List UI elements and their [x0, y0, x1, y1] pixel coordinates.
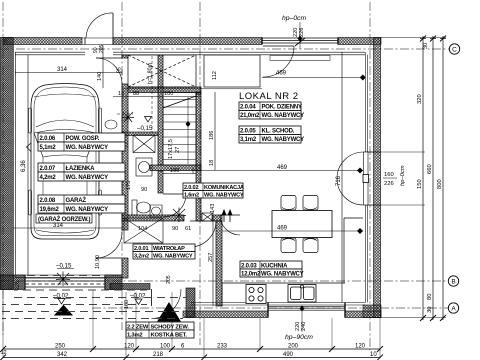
svg-text:257: 257 — [208, 253, 214, 262]
chair 4 — [303, 238, 318, 253]
stairs break line — [163, 96, 196, 108]
wall left band — [0, 38, 13, 290]
under-roof zone left (h=1.80) — [128, 55, 196, 87]
svg-text:1,3m2: 1,3m2 — [127, 333, 142, 339]
svg-text:10: 10 — [370, 352, 377, 358]
dim 314 bottom garage — [13, 227, 122, 229]
svg-text:2.0.02: 2.0.02 — [184, 185, 198, 191]
svg-text:3,1m2: 3,1m2 — [240, 137, 257, 143]
dim 314 top garage — [15, 70, 122, 76]
stairs walk line — [187, 97, 189, 164]
svg-text:18: 18 — [118, 91, 124, 97]
svg-text:A: A — [451, 305, 456, 312]
chair 1 — [281, 196, 296, 211]
wall bath/stairs vertical — [158, 55, 163, 165]
svg-text:–0,15: –0,15 — [137, 125, 153, 132]
svg-text:18: 18 — [195, 91, 201, 97]
window top living room — [262, 38, 338, 45]
svg-text:120: 120 — [124, 344, 135, 350]
label box 2.0.07 — [38, 163, 125, 181]
label box 2.0.01 — [133, 244, 195, 260]
radiator komunikacja — [202, 213, 213, 221]
french door upper leaf — [337, 152, 364, 179]
wall top middle band — [113, 38, 262, 45]
inner face line left — [14, 52, 16, 277]
svg-text:320: 320 — [417, 94, 423, 104]
svg-text:2.0.03: 2.0.03 — [241, 264, 257, 270]
svg-text:2.0.07: 2.0.07 — [40, 166, 56, 172]
svg-text:POW. GOSP.: POW. GOSP. — [66, 136, 100, 142]
axis vertical 1 — [2, 2, 4, 335]
stairs walk diamond — [186, 121, 191, 127]
axis bubble C — [449, 44, 459, 54]
svg-text:150: 150 — [417, 179, 423, 189]
sink — [288, 285, 316, 303]
inner face lines right — [365, 52, 367, 302]
STAIRS — [163, 93, 196, 166]
dim line interior y96 — [113, 96, 201, 98]
door wiatrolap-komunikacja — [190, 221, 216, 247]
door top living (balcony door leaf) — [263, 46, 294, 77]
svg-text:WG. NABYWCY: WG. NABYWCY — [262, 137, 305, 143]
svg-text:12,0m2: 12,0m2 — [241, 272, 261, 278]
svg-text:90: 90 — [141, 187, 147, 193]
svg-text:100: 100 — [160, 344, 171, 350]
label box 2.0.05 — [239, 126, 304, 143]
french door right wall frame — [363, 152, 381, 205]
svg-text:ŁAZIENKA: ŁAZIENKA — [66, 166, 96, 172]
axis bubble A — [448, 303, 458, 313]
svg-text:2.0.05: 2.0.05 — [240, 129, 256, 135]
svg-text:hp–90cm: hp–90cm — [285, 334, 313, 341]
svg-text:hp–0cm: hp–0cm — [400, 165, 406, 186]
inner face lines bottom — [191, 303, 365, 306]
wall wiatrolap top horizontal — [122, 215, 184, 221]
svg-text:226: 226 — [15, 281, 21, 290]
svg-text:6,36: 6,36 — [21, 160, 27, 172]
wall stairs bottom horizontal — [150, 165, 201, 171]
wall powgosp/bath divider — [122, 132, 158, 136]
svg-text:h=1,80m: h=1,80m — [148, 62, 154, 84]
entry big triangle — [158, 303, 180, 321]
dim 186 stairs — [214, 92, 216, 170]
label box 2.0.03 — [240, 261, 304, 278]
right dim chain 2 — [430, 36, 436, 320]
svg-text:KL. SCHOD.: KL. SCHOD. — [262, 129, 295, 135]
roof headroom dashed line bath — [151, 56, 153, 133]
svg-text:LOKAL NR 2: LOKAL NR 2 — [239, 91, 299, 102]
level -0.02 porch — [130, 293, 146, 305]
toilet — [132, 200, 151, 215]
wall garage/hall lower — [122, 258, 128, 278]
dim 100 stairs bottom — [163, 173, 196, 175]
inner face lines top — [15, 52, 365, 55]
svg-text:716: 716 — [336, 175, 342, 186]
axis vertical 3 — [199, 2, 201, 345]
level -0.02 left — [53, 293, 72, 316]
axis C horizontal — [0, 48, 449, 50]
svg-text:–0,02: –0,02 — [130, 293, 146, 300]
label box 2.0.02 — [183, 183, 244, 199]
svg-text:17x17,5: 17x17,5 — [168, 139, 174, 159]
bottom dim chain 2 — [3, 357, 380, 359]
wall garage gate pier left — [0, 275, 25, 290]
svg-text:30: 30 — [427, 307, 433, 313]
svg-text:POK. DZIENNY: POK. DZIENNY — [262, 105, 302, 111]
zone boundary line — [122, 88, 262, 90]
right dim chain 1 — [420, 36, 426, 320]
svg-text:88: 88 — [133, 91, 139, 97]
wardrobe crossed wiatrolap — [124, 218, 163, 243]
svg-text:2.0.08: 2.0.08 — [40, 198, 56, 204]
axis A horizontal — [92, 307, 449, 309]
svg-text:WG. NABYWCY: WG. NABYWCY — [262, 113, 305, 119]
chair 2 — [303, 196, 318, 211]
svg-text:B: B — [451, 278, 455, 285]
wall right band — [374, 38, 381, 318]
window bottom kitchen — [268, 303, 345, 318]
wall bath lower vertical — [158, 171, 163, 193]
label box 2.0.06 — [38, 133, 125, 151]
level -0.15 bath — [137, 117, 153, 133]
svg-text:660: 660 — [427, 164, 433, 174]
INTERIOR WALLS — [122, 55, 222, 306]
garage gate bottom — [25, 275, 105, 290]
svg-text:WG. NABYWCY: WG. NABYWCY — [66, 207, 109, 213]
paving dashes driveway — [2, 276, 186, 319]
door bathroom — [163, 194, 186, 217]
wall garage/hall mid — [122, 84, 128, 230]
svg-text:100: 100 — [164, 91, 173, 97]
washer — [136, 158, 152, 176]
label box 2.0.04 — [239, 102, 304, 119]
svg-text:WG. NABYWCY: WG. NABYWCY — [261, 272, 304, 278]
door garage side (top, swings out) — [86, 13, 113, 38]
dim 469 living — [193, 168, 363, 174]
label box schody zew — [126, 322, 194, 339]
svg-text:5,1m2: 5,1m2 — [40, 145, 57, 151]
wall kitchen/porch vertical — [216, 221, 222, 306]
svg-text:2.2 ZEW: 2.2 ZEW — [127, 325, 149, 331]
svg-text:27: 27 — [175, 147, 181, 153]
dim 469 kitchen — [222, 230, 363, 232]
svg-text:200: 200 — [288, 344, 299, 350]
svg-text:61: 61 — [185, 226, 191, 232]
svg-text:160: 160 — [384, 172, 394, 178]
dim 469 top window — [262, 77, 365, 79]
wall top garage band — [3, 38, 82, 45]
inner face lines garage bottom — [15, 275, 122, 278]
svg-text:226: 226 — [384, 181, 394, 187]
wall garage/hall upper — [122, 55, 128, 58]
svg-text:2.0.06: 2.0.06 — [40, 136, 56, 142]
wall garage gate pier right — [105, 275, 122, 290]
wall wiatrolap top right stub — [212, 215, 222, 221]
wheels — [29, 108, 32, 133]
radiator under top window — [270, 56, 330, 61]
svg-text:3,2m2: 3,2m2 — [134, 254, 149, 260]
svg-text:WG. NABYWCY: WG. NABYWCY — [66, 145, 109, 151]
stove — [246, 285, 266, 304]
svg-text:WG. NABYWCY: WG. NABYWCY — [66, 175, 109, 181]
svg-text:250: 250 — [55, 344, 66, 350]
svg-text:218: 218 — [153, 352, 164, 358]
wall bottom right band — [345, 311, 381, 318]
dim 140 door — [102, 46, 104, 89]
plant komunikacja — [172, 208, 186, 223]
svg-text:2.0.04: 2.0.04 — [240, 105, 256, 111]
chair 3 — [281, 238, 296, 253]
svg-text:30: 30 — [423, 43, 429, 49]
door opening top garage jambs — [82, 38, 113, 45]
wall top right band — [338, 38, 381, 45]
extension lines bottom — [3, 290, 380, 358]
wall stairs/living vertical — [196, 93, 201, 222]
svg-text:SCHODY ZEW.: SCHODY ZEW. — [151, 325, 190, 331]
svg-text:C: C — [452, 46, 457, 53]
svg-text:175: 175 — [126, 181, 132, 190]
small sink garage — [105, 120, 117, 129]
entry arrows — [222, 210, 232, 222]
axis vertical 4 — [369, 2, 371, 350]
svg-text:342: 342 — [57, 352, 68, 358]
axis B horizontal — [0, 280, 449, 282]
svg-text:140: 140 — [97, 72, 103, 81]
svg-text:KUCHNIA: KUCHNIA — [261, 264, 288, 270]
door garage-bath lower — [96, 232, 122, 258]
bottom dim chain 1 — [3, 348, 380, 350]
wall stairs top horizontal — [128, 87, 201, 93]
plant powgosp — [122, 111, 134, 124]
svg-text:469: 469 — [277, 165, 288, 171]
dim 257 kitchen wall — [212, 221, 214, 306]
svg-text:(GARAŻ OGRZEW.): (GARAŻ OGRZEW.) — [38, 216, 91, 223]
label box 2.0.08 — [38, 195, 125, 213]
dining table — [272, 211, 332, 238]
svg-text:WG. NABYWCY: WG. NABYWCY — [204, 193, 244, 199]
right dim chain 3 — [440, 36, 446, 320]
door komunikacja-kitchen — [220, 215, 240, 235]
wall bottom right corner block — [363, 305, 381, 318]
wall porch right pier — [186, 288, 195, 318]
door entry porch — [152, 289, 182, 319]
headroom dashes bath left — [117, 113, 133, 115]
svg-text:18: 18 — [209, 160, 215, 166]
axis vertical 2 — [121, 2, 123, 330]
bathroom fixtures: szacht crossed box — [133, 135, 155, 153]
washbasin — [150, 205, 162, 217]
svg-text:10,90: 10,90 — [95, 255, 101, 269]
kitchen counter right — [344, 218, 363, 283]
node diamond wall — [357, 228, 363, 234]
svg-text:112: 112 — [212, 71, 218, 80]
svg-text:205: 205 — [99, 44, 105, 53]
kitchen counter bottom — [222, 283, 345, 306]
under-roof zone right — [204, 55, 260, 87]
OUTER WALLS hatched — [3, 38, 381, 318]
svg-text:233: 233 — [217, 344, 228, 350]
svg-text:19,6m2: 19,6m2 — [40, 207, 60, 213]
svg-text:490: 490 — [283, 352, 294, 358]
svg-text:21,0m2: 21,0m2 — [240, 113, 260, 119]
door garage-hall upper — [96, 58, 122, 84]
label garaz ogrzewany — [36, 214, 92, 223]
svg-text:WIATROŁAP: WIATROŁAP — [153, 246, 185, 252]
svg-text:1,6m2: 1,6m2 — [184, 193, 199, 199]
plant garage front — [56, 272, 70, 287]
dim 716 vertical — [341, 53, 343, 303]
svg-text:469: 469 — [277, 226, 288, 232]
svg-text:GARAŻ: GARAŻ — [66, 197, 87, 204]
wall bottom mid band — [183, 311, 268, 318]
svg-text:314: 314 — [53, 223, 64, 229]
svg-text:WG. NABYWCY: WG. NABYWCY — [153, 254, 193, 260]
svg-text:205: 205 — [166, 275, 172, 284]
svg-text:KOMUNIKACJA: KOMUNIKACJA — [204, 185, 244, 191]
svg-text:90: 90 — [172, 226, 178, 232]
svg-text:314: 314 — [57, 67, 68, 73]
svg-text:100: 100 — [170, 168, 179, 174]
svg-text:143: 143 — [210, 204, 216, 213]
svg-text:KOSTKA BET.: KOSTKA BET. — [151, 333, 188, 339]
svg-text:120: 120 — [355, 344, 366, 350]
svg-text:186: 186 — [209, 131, 215, 140]
axis bubble B — [448, 276, 458, 286]
mirrors — [27, 143, 32, 152]
right wall extension lines — [381, 38, 446, 318]
svg-text:2.0.01: 2.0.01 — [134, 246, 148, 252]
right chain end arrows — [420, 36, 446, 322]
svg-text:4,2m2: 4,2m2 — [40, 175, 57, 181]
svg-text:80: 80 — [427, 294, 433, 300]
french door lower leaf — [337, 179, 364, 206]
dim 636 garage left — [27, 55, 29, 275]
svg-text:469: 469 — [276, 71, 287, 77]
svg-text:hp–0cm: hp–0cm — [282, 15, 307, 22]
CAR in garage — [27, 84, 104, 240]
level -0.15 — [56, 263, 74, 270]
svg-text:800: 800 — [437, 179, 443, 189]
svg-text:104: 104 — [138, 226, 147, 232]
wall wiatrolap bottom — [110, 284, 150, 290]
svg-text:95: 95 — [117, 67, 123, 73]
